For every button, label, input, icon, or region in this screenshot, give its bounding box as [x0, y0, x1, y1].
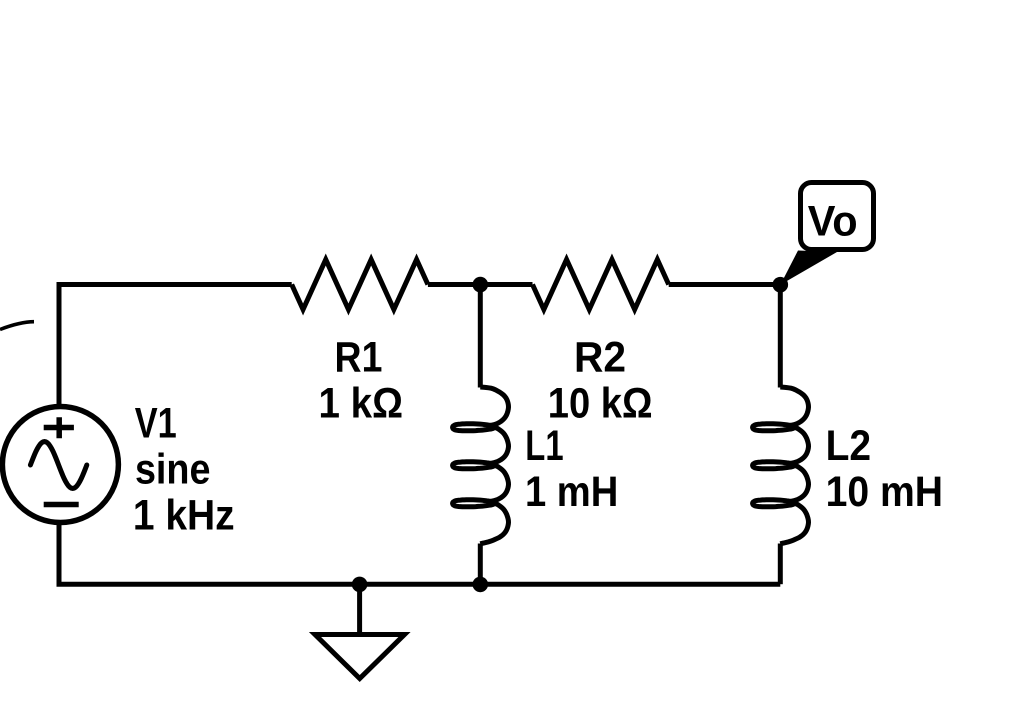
svg-text:1 mH: 1 mH [525, 467, 618, 516]
svg-text:L1: L1 [525, 422, 563, 470]
svg-text:V1: V1 [135, 400, 177, 448]
svg-text:R2: R2 [574, 333, 626, 381]
svg-text:L2: L2 [826, 421, 871, 469]
svg-text:sine: sine [135, 444, 211, 493]
svg-text:10 kΩ: 10 kΩ [548, 379, 653, 428]
svg-text:1 kΩ: 1 kΩ [318, 379, 403, 427]
svg-text:10 mH: 10 mH [826, 467, 943, 515]
svg-text:1 kHz: 1 kHz [133, 491, 235, 539]
svg-text:R1: R1 [335, 333, 383, 381]
svg-text:Vo: Vo [808, 197, 858, 245]
